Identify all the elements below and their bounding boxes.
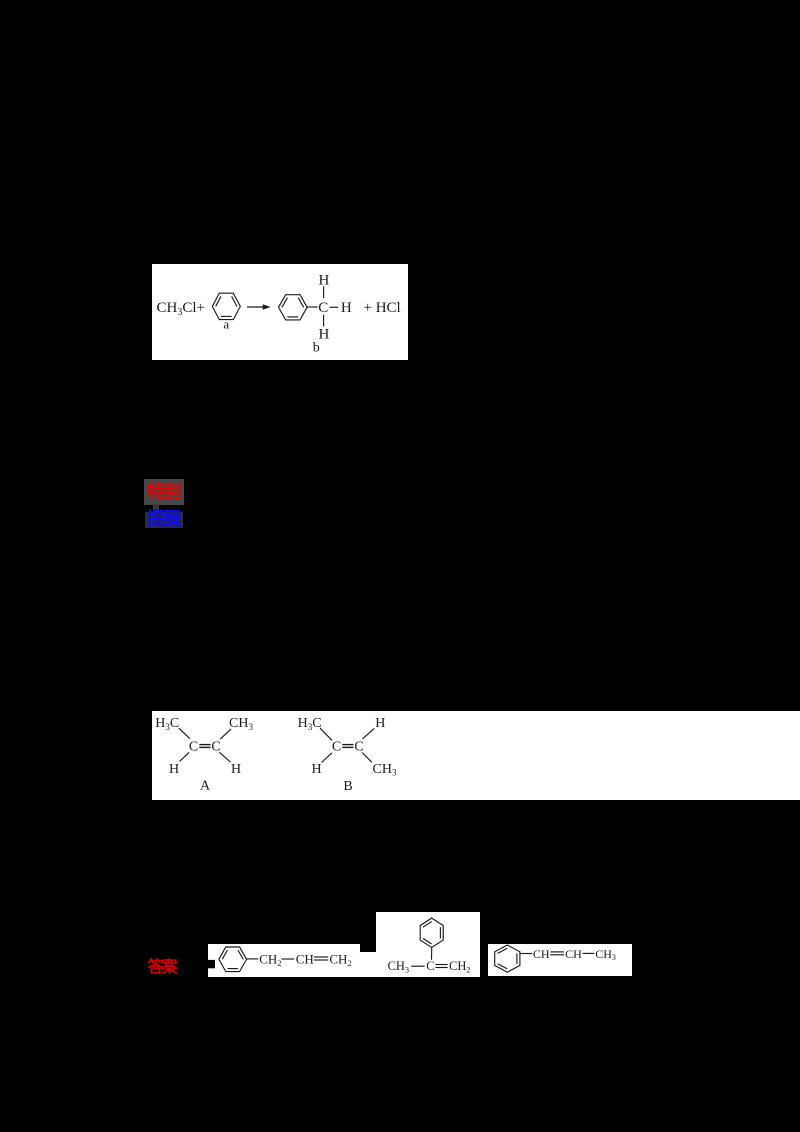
benzene ring a (212, 293, 240, 319)
black notch at left edge (207, 960, 215, 968)
svg-text:H: H (231, 762, 241, 777)
svg-text:CH3: CH3 (387, 959, 408, 974)
svg-text:CH2: CH2 (449, 959, 470, 974)
svg-text:H: H (318, 327, 329, 343)
bond C-H down (323, 315, 325, 327)
svg-text:C: C (354, 740, 363, 755)
svg-text:CH: CH (565, 946, 582, 960)
A: C=C double bond (199, 745, 210, 748)
A: bond CH3 to C (220, 729, 231, 739)
svg-text:H: H (375, 716, 385, 731)
bond ring to CH (520, 952, 533, 954)
B: bond C to CH3 bottom-right (362, 753, 372, 763)
double bond (314, 957, 328, 960)
svg-text:H3C: H3C (155, 716, 179, 732)
bond C-H right (330, 306, 338, 308)
svg-text:B: B (343, 779, 352, 794)
svg-text:CH2: CH2 (259, 951, 281, 968)
bond C-H up (323, 286, 325, 298)
svg-text:H3C: H3C (298, 716, 322, 732)
double bond (550, 952, 564, 955)
single bond (583, 952, 595, 954)
box3 benzene ring (495, 945, 520, 972)
bond ring to C (430, 948, 432, 960)
box2: 2-phenylpropene (376, 912, 481, 977)
svg-text:HCl: HCl (376, 300, 401, 316)
bond ring-C (307, 306, 317, 308)
A: bond C to H bottom-right (219, 752, 230, 762)
svg-text:C: C (318, 300, 328, 316)
B: bond H3C to C (320, 728, 332, 740)
box3: phenyl-CH=CH-CH3 (488, 944, 632, 976)
svg-text:H: H (341, 300, 352, 316)
reaction arrow (247, 304, 271, 310)
svg-text:CH: CH (533, 946, 550, 960)
middle white panel: cis/trans structures A and B (152, 711, 800, 800)
svg-text:A: A (200, 779, 211, 794)
single bond (282, 958, 295, 960)
svg-text:+: + (363, 300, 371, 316)
A: bond C to H bottom-left (180, 752, 190, 761)
top white panel: CH3Cl + benzene -> toluene + HCl (152, 264, 408, 360)
svg-text:CH: CH (296, 951, 314, 966)
svg-text:CH2: CH2 (329, 951, 351, 968)
double bond (435, 965, 447, 968)
svg-text:CH3: CH3 (229, 716, 253, 732)
B: bond H to C (363, 728, 375, 739)
red characters (147, 481, 185, 503)
svg-text:CH3Cl+: CH3Cl+ (157, 300, 205, 318)
svg-text:CH3: CH3 (373, 762, 397, 778)
blue characters (147, 510, 185, 530)
box1 benzene ring (219, 947, 247, 972)
svg-text:C: C (426, 959, 434, 973)
bottom red characters (148, 957, 182, 979)
svg-text:C: C (211, 740, 220, 755)
svg-text:H: H (311, 762, 321, 777)
blue strip (145, 512, 184, 528)
product benzene ring (279, 295, 308, 320)
bond ring to CH2 (247, 958, 259, 960)
A: bond H3C to C (179, 728, 190, 738)
svg-text:H: H (169, 762, 179, 777)
svg-text:H: H (318, 272, 329, 288)
svg-text:CH3: CH3 (595, 946, 616, 961)
svg-text:C: C (332, 740, 341, 755)
single bond (411, 965, 424, 967)
B: bond C to H bottom-left (322, 753, 333, 763)
B: C=C double bond (342, 745, 353, 748)
gray tab (153, 504, 160, 512)
svg-text:a: a (223, 317, 229, 332)
red tag (gray block) (144, 479, 185, 505)
box2 benzene ring (420, 918, 443, 947)
box1: phenyl-CH2-CH=CH2 (208, 944, 360, 977)
svg-text:C: C (189, 740, 198, 755)
svg-text:b: b (313, 340, 320, 355)
white bridge between box1 and box2 (360, 952, 376, 978)
